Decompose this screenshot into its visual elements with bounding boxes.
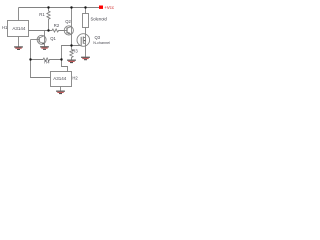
svg-text:Solenoid: Solenoid — [91, 17, 108, 22]
svg-text:R3: R3 — [72, 49, 78, 54]
svg-text:N-channel: N-channel — [93, 41, 110, 45]
svg-text:R1: R1 — [39, 12, 45, 17]
svg-text:H1: H1 — [2, 25, 8, 30]
svg-text:Q1: Q1 — [50, 36, 56, 41]
svg-text:H2: H2 — [72, 75, 78, 80]
svg-text:R4: R4 — [44, 59, 50, 64]
svg-text:R2: R2 — [54, 23, 60, 28]
svg-text:+Vcc: +Vcc — [104, 5, 115, 10]
svg-text:Q3: Q3 — [95, 35, 101, 40]
svg-text:A3144: A3144 — [53, 76, 67, 81]
svg-text:Q2: Q2 — [65, 19, 71, 24]
svg-text:A3144: A3144 — [12, 26, 26, 31]
